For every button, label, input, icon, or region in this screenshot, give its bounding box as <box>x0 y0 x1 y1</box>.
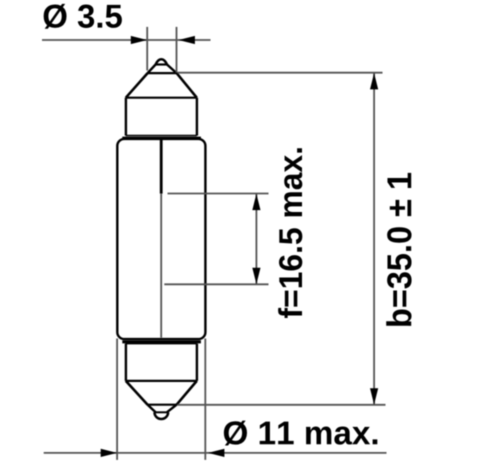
bulb top dome base line <box>155 63 167 65</box>
bulb top tip taper left side <box>148 65 156 74</box>
bulb top cap bottom edge <box>126 135 197 137</box>
dimension line length b <box>373 73 375 404</box>
dimension text diameter 11 max. <box>224 421 377 446</box>
bulb top cone left side <box>126 73 148 98</box>
bulb bottom cap right wall <box>196 344 198 381</box>
dimension line diameter 11 <box>44 452 387 454</box>
bulb bottom cap top edge <box>126 343 197 345</box>
glass tube body <box>117 139 205 339</box>
bulb top cone base line <box>126 97 197 99</box>
bulb top taper base line <box>147 72 177 74</box>
bulb top contact dome <box>156 59 167 64</box>
arrowhead left of diameter 3.5 <box>131 36 147 44</box>
bulb bottom tip taper left side <box>148 405 156 413</box>
dimension line filament f <box>255 194 257 284</box>
arrowhead right of diameter 11 <box>208 449 224 457</box>
bulb bottom cone right side <box>177 381 197 405</box>
bulb top cap left wall <box>125 98 127 136</box>
arrowhead bottom of filament f <box>252 268 260 284</box>
arrowhead top of filament f <box>252 194 260 210</box>
reference line bottom for filament f <box>164 283 268 285</box>
bulb top cone right side <box>177 73 197 98</box>
reference line top for filament f <box>168 193 269 195</box>
arrowhead right of diameter 3.5 <box>179 36 195 44</box>
filament wire thin segment <box>160 194 162 338</box>
reference line top for length b <box>178 72 383 74</box>
arrowhead left of diameter 11 <box>101 449 117 457</box>
bulb top tip taper right side <box>167 65 177 74</box>
extension line right tip diameter <box>176 27 178 73</box>
dimension line for diameter 3.5 <box>42 39 211 41</box>
bulb bottom contact dome <box>155 412 169 419</box>
dimension text b=35.0 plus-minus 1 <box>386 173 411 326</box>
extension line left tip diameter <box>146 27 148 71</box>
extension line right glass diameter <box>204 339 206 460</box>
bulb top cap right wall <box>196 98 198 136</box>
bulb bottom cone left side <box>126 381 148 405</box>
bulb top flange <box>122 137 201 140</box>
reference line bottom for length b <box>178 404 386 406</box>
filament support wire thick segment <box>160 140 163 194</box>
bulb bottom tip taper right side <box>167 405 177 413</box>
dimension text f=16.5 max. <box>278 148 302 318</box>
bulb bottom cap bottom edge <box>126 380 197 382</box>
bulb bottom taper top line <box>147 404 177 406</box>
bulb bottom cap left wall <box>125 344 127 381</box>
extension line left glass diameter <box>116 339 118 460</box>
bulb bottom flange <box>122 340 201 343</box>
dimension text diameter 3.5 <box>44 4 122 29</box>
arrowhead top of length b <box>370 73 378 89</box>
arrowhead bottom of length b <box>370 388 378 404</box>
bulb bottom dome top line <box>154 411 169 413</box>
